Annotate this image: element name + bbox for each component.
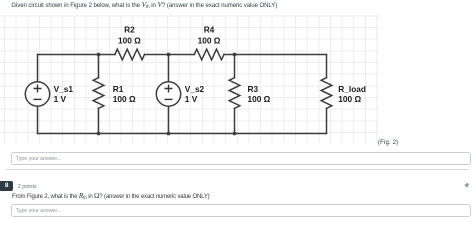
svg-text:100 Ω: 100 Ω (118, 36, 141, 46)
svg-text:R4: R4 (204, 24, 215, 34)
svg-text:V_s2: V_s2 (185, 84, 205, 94)
svg-text:1 V: 1 V (185, 94, 198, 104)
svg-text:V_s1: V_s1 (54, 84, 74, 94)
svg-text:1 V: 1 V (54, 94, 67, 104)
svg-text:100 Ω: 100 Ω (198, 36, 221, 46)
svg-text:R3: R3 (248, 84, 259, 94)
svg-text:100 Ω: 100 Ω (338, 94, 361, 104)
svg-text:100 Ω: 100 Ω (113, 94, 136, 104)
svg-text:R1: R1 (113, 84, 124, 94)
svg-text:100 Ω: 100 Ω (248, 94, 271, 104)
svg-text:R_load: R_load (338, 84, 366, 94)
svg-text:R2: R2 (124, 24, 135, 34)
